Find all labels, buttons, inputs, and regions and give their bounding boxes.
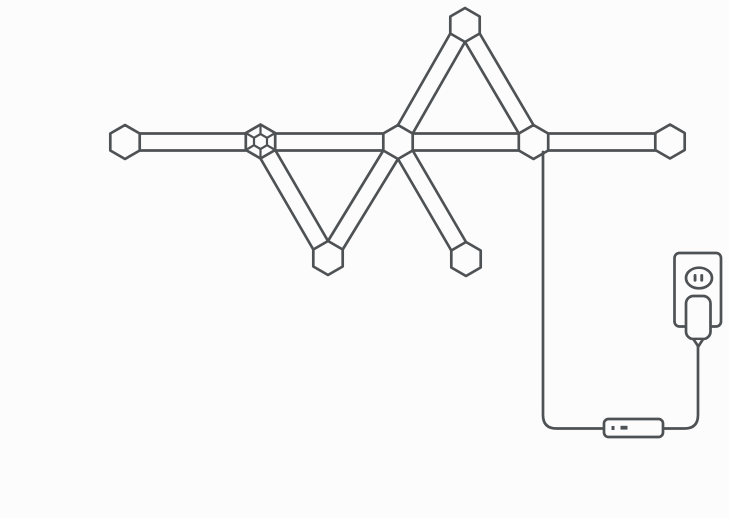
node apex hexagon H2	[450, 8, 479, 42]
adapter strain relief	[694, 340, 703, 347]
wire light-bar B4 (connector C3 to right hexagon)	[548, 134, 655, 151]
node connector C1 (hexagram wheel)	[246, 125, 275, 159]
wire light-bar B7 (connector C1 down to bottom-left hexagon)	[261, 150, 329, 250]
wire light-bar B9 (hub C2 down to bottom-right hexagon)	[398, 151, 466, 251]
wire light-bar B8 (hub C2 down to bottom-left hexagon)	[328, 151, 398, 250]
wire light-bar B1 (left hexagon to connector C1)	[140, 134, 246, 151]
power adapter body	[686, 296, 711, 339]
node left end-cap hexagon H1	[110, 125, 139, 159]
node bottom-left hexagon H4	[313, 241, 342, 275]
controller LED dot	[612, 426, 615, 430]
node right end-cap hexagon H3	[655, 125, 684, 159]
wire power cable (controller to adapter)	[663, 346, 698, 429]
controller button	[621, 426, 628, 430]
wire light-bar B6 (apex hexagon down to connector C3, right leg)	[465, 34, 534, 134]
wire light-bar B3 (hub C2 to connector C3)	[413, 134, 519, 151]
wire light-bar B2 (connector C1 to hub C2)	[275, 134, 383, 151]
node bottom-right hexagon H5	[451, 242, 480, 276]
controller body	[604, 419, 663, 437]
node connector C3 (power take-off hexagon)	[519, 125, 548, 159]
socket face ellipse	[686, 268, 712, 289]
node hub hexagon C2	[383, 125, 412, 159]
wall socket plate	[675, 253, 722, 327]
wire light-bar B5 (hub C2 up to apex hexagon, left leg)	[398, 34, 465, 134]
wire power cable (connector C3 to controller)	[543, 152, 604, 429]
socket slot left	[694, 274, 697, 282]
socket slot right	[700, 274, 703, 282]
